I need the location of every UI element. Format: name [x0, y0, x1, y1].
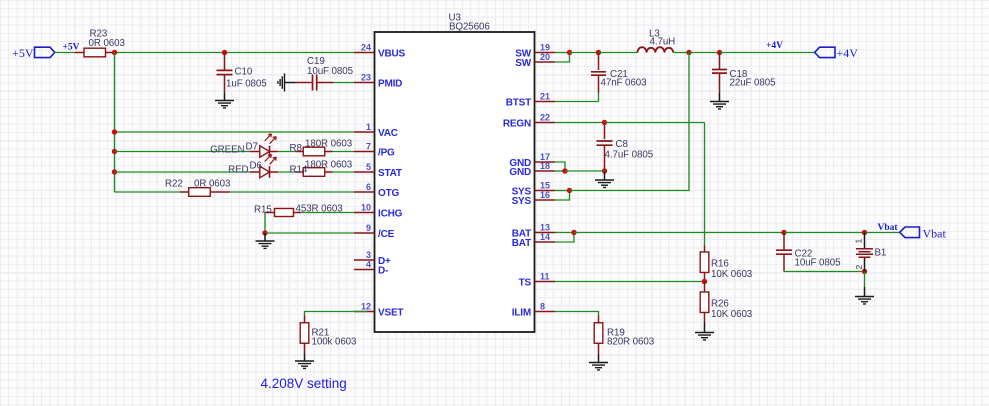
label R8 refdes [290, 143, 303, 154]
wire C22 return to B1 bottom [784, 271, 865, 273]
resistor R23 [84, 48, 106, 57]
label U3 refdes [449, 13, 462, 24]
resistor R15 [275, 209, 294, 217]
svg-text:0R 0603: 0R 0603 [89, 38, 126, 49]
wire B1 to Vbat port [865, 232, 901, 234]
svg-text:BAT: BAT [512, 238, 531, 249]
wire pin 15 to SYS node [555, 190, 570, 192]
wire L3 to +4V node [673, 52, 689, 54]
node BAT junction at B1 [862, 230, 867, 235]
svg-text:100k 0603: 100k 0603 [312, 337, 358, 348]
lead R14 left [296, 171, 304, 173]
svg-text:24: 24 [361, 43, 371, 53]
wire C21 to L3 [599, 52, 638, 54]
pin 2 of B1 [854, 265, 864, 270]
label D6 RED [228, 165, 248, 176]
svg-text:22: 22 [540, 113, 550, 123]
svg-text:16: 16 [540, 190, 550, 200]
capacitor C10 [217, 70, 233, 74]
inductor L3 [638, 47, 674, 52]
IC U3 BQ25606 body [375, 32, 535, 332]
lead R23 left [75, 52, 84, 54]
wire R15 to pin 10 [301, 212, 354, 214]
lead R21 top [304, 316, 306, 324]
node +4V junction at C18 [717, 50, 722, 55]
node GND junction at C8 [602, 168, 607, 173]
wire REGN down to R16 [704, 123, 706, 246]
svg-text:SYS: SYS [512, 196, 532, 207]
svg-text:3: 3 [366, 250, 371, 260]
svg-text:10uF 0805: 10uF 0805 [795, 258, 842, 269]
pin 15 SYS of U3 [512, 181, 555, 198]
svg-text:15: 15 [540, 181, 550, 191]
ground at C10 [215, 101, 234, 108]
svg-text:RED: RED [228, 165, 248, 176]
lead C10 bottom [224, 75, 226, 93]
svg-text:R8: R8 [290, 143, 303, 154]
wire R8 to pin 7 [333, 151, 355, 153]
svg-text:GND: GND [509, 167, 531, 178]
wire SYS node to +4V vertical [570, 53, 690, 191]
label C21 value 47nF 0603 [601, 78, 648, 89]
lead R19 gnd [598, 355, 600, 363]
capacitor C22 [776, 250, 792, 254]
svg-text:180R 0603: 180R 0603 [305, 160, 353, 171]
pin 21 BTST of U3 [506, 92, 555, 109]
svg-text:D-: D- [378, 265, 388, 276]
svg-text:D6: D6 [250, 161, 263, 172]
wire C8 to R16 column [605, 122, 705, 124]
node GND18 junction [562, 168, 567, 173]
pin 1 of B1 [854, 239, 864, 244]
ground at R19 [589, 363, 608, 370]
svg-text:VSET: VSET [378, 307, 403, 318]
lead R19 bottom [598, 343, 600, 355]
lead R15 right [294, 212, 302, 214]
lead R8 right [325, 151, 333, 153]
label L3 value 4.7uH [650, 37, 676, 48]
svg-text:Vbat: Vbat [878, 223, 899, 233]
node VBUS junction at C10 [222, 50, 227, 55]
svg-text:1: 1 [366, 122, 371, 132]
net label +5V on wire [63, 43, 80, 53]
label C22 value 10uF 0805 [795, 258, 842, 269]
label R8 value 180R 0603 [305, 139, 353, 150]
svg-text:GREEN: GREEN [210, 145, 244, 156]
svg-text:R15: R15 [254, 205, 272, 216]
lead R15 left [265, 212, 275, 214]
svg-text:+5V: +5V [63, 43, 80, 53]
ground at CE [256, 241, 275, 248]
svg-text:OTG: OTG [378, 188, 399, 199]
LED D6 (red) [260, 154, 276, 178]
wire bus to D6 anode [115, 171, 251, 173]
svg-text:6: 6 [366, 182, 371, 192]
svg-text:D7: D7 [246, 142, 258, 153]
label R22 refdes [165, 179, 183, 190]
svg-text:2: 2 [854, 265, 864, 270]
lead B1 gnd [864, 287, 866, 297]
wire pin 8 to R19 [555, 312, 599, 316]
svg-text:+5V: +5V [12, 46, 34, 60]
label B1 refdes [875, 248, 887, 259]
wire R15 down to CE node [264, 213, 266, 234]
svg-text:1: 1 [854, 239, 864, 244]
lead R21 gnd [304, 354, 306, 362]
wire bus to D7 anode [115, 151, 251, 153]
wire CE node to pin 9 [265, 232, 354, 234]
svg-text:B1: B1 [875, 248, 887, 259]
ground at C18 [710, 102, 729, 109]
svg-text:20: 20 [540, 52, 550, 62]
pin 18 GND of U3 [509, 161, 555, 178]
svg-text:14: 14 [540, 232, 550, 242]
resistor R22 [189, 188, 211, 197]
svg-text:18: 18 [540, 161, 550, 171]
svg-text:SW: SW [515, 58, 531, 69]
svg-text:STAT: STAT [378, 168, 402, 179]
label C18 refdes [730, 69, 748, 80]
label R16 refdes [711, 259, 729, 270]
ground at R21 [295, 361, 314, 368]
svg-text:11: 11 [540, 272, 550, 282]
lead C19 gnd side [285, 82, 296, 84]
svg-text:13: 13 [540, 223, 550, 233]
svg-text:4.7uH: 4.7uH [650, 37, 676, 48]
label R15 refdes [254, 205, 272, 216]
node BAT junction [571, 230, 576, 235]
lead R26 bottom [704, 313, 706, 323]
lead D6 anode [250, 171, 260, 173]
svg-text:820R 0603: 820R 0603 [607, 337, 655, 348]
lead C18 top [719, 53, 721, 70]
label R22 value 0R 0603 [194, 179, 231, 190]
svg-text:R16: R16 [711, 259, 729, 270]
lead C19 left [295, 82, 312, 84]
pin 20 SW of U3 [515, 52, 555, 69]
svg-text:22uF 0805: 22uF 0805 [730, 78, 777, 89]
svg-text:VAC: VAC [378, 128, 398, 139]
label C10 value 1uF 0805 [226, 79, 267, 90]
label R19 value 820R 0603 [607, 337, 655, 348]
label C8 refdes [616, 139, 629, 150]
lead R22 left [180, 191, 189, 193]
pin 6 OTG of U3 [354, 182, 399, 199]
port +4V [815, 47, 835, 57]
lead R26 gnd [704, 323, 706, 333]
lead C19 right [317, 82, 334, 84]
wire C10 to pin 24 [225, 52, 355, 54]
label D6 refdes [250, 161, 263, 172]
svg-text:REGN: REGN [503, 118, 531, 129]
net label +4V on wire [766, 41, 783, 51]
wire C18 to +4V port [720, 52, 815, 54]
svg-text:4.7uF 0805: 4.7uF 0805 [605, 150, 654, 161]
label R26 value 10K 0603 [711, 309, 753, 320]
node +4V junction at L3 [686, 50, 691, 55]
node SW junction 1 [567, 50, 572, 55]
svg-text:ILIM: ILIM [512, 307, 531, 318]
wire pin 22 to C8 [555, 122, 605, 124]
wire bus corner to R22 [115, 191, 181, 193]
svg-text:Vbat: Vbat [923, 227, 947, 241]
label C19 refdes [307, 56, 325, 67]
pin 4 D- of U3 [354, 260, 388, 277]
lead C8 top [604, 123, 606, 140]
wire C22 to B1 [784, 232, 865, 234]
ground at B1 [855, 297, 874, 304]
node REGN junction at C8 [602, 120, 607, 125]
lead R22 right [210, 191, 230, 193]
pin 14 BAT of U3 [512, 232, 555, 249]
lead C10 top [224, 53, 226, 71]
ground at R26 [695, 333, 714, 340]
label R23 refdes [90, 29, 108, 40]
wire pin 14 up to BAT node [555, 233, 574, 243]
svg-text:47nF 0603: 47nF 0603 [601, 78, 648, 89]
label C19 value 10uF 0805 [307, 66, 354, 77]
pin 7 /PG of U3 [354, 142, 395, 159]
wire pin 17 to gnd node [555, 162, 565, 171]
wire +4V node to C18 [689, 52, 720, 54]
lead R16 bottom [704, 273, 706, 282]
svg-text:VBUS: VBUS [378, 48, 406, 59]
lead C22 top [783, 233, 785, 250]
capacitor C18 [712, 70, 727, 74]
lead D7 cathode [270, 151, 279, 153]
svg-text:TS: TS [519, 277, 532, 288]
wire R22 to pin 6 [230, 191, 354, 193]
label +5V port text [12, 46, 34, 60]
lead D7 anode [250, 151, 260, 153]
pin 3 D+ of U3 [354, 250, 391, 267]
pin 13 BAT of U3 [512, 223, 555, 240]
svg-text:8: 8 [540, 302, 545, 312]
svg-text:7: 7 [366, 142, 371, 152]
svg-text:23: 23 [361, 73, 371, 83]
lead R14 right [325, 171, 333, 173]
pin 22 REGN of U3 [503, 113, 555, 130]
wire +5V vertical bus [114, 53, 116, 193]
svg-text:ICHG: ICHG [378, 208, 403, 219]
lead C8 gnd [604, 171, 606, 180]
label D7 GREEN [210, 145, 244, 156]
pin 8 ILIM of U3 [512, 302, 555, 319]
node SW junction at C21 [596, 50, 601, 55]
label D7 refdes [246, 142, 258, 153]
wire VBUS node to C10 [115, 52, 225, 54]
capacitor C8 [597, 141, 613, 145]
node B1 bottom junction [862, 269, 867, 274]
pin 24 VBUS of U3 [354, 43, 406, 60]
lead B1 bottom [864, 258, 866, 272]
wire C19 to pin 23 [334, 82, 355, 84]
wire +5V port to R23 [55, 52, 75, 54]
label U3 value BQ25606 [449, 22, 490, 33]
pin 19 SW of U3 [515, 43, 555, 60]
label +4V port text [837, 46, 859, 60]
wire pin 19 to SW node [555, 52, 570, 54]
lead C8 bottom [604, 145, 606, 171]
node PG junction [112, 149, 117, 154]
note 4.208V setting [261, 376, 347, 391]
svg-text:C10: C10 [235, 67, 253, 78]
capacitor C21 [591, 72, 606, 75]
label C18 value 22uF 0805 [730, 78, 777, 89]
svg-text:1uF 0805: 1uF 0805 [226, 79, 267, 90]
lead C18 bottom [719, 73, 721, 93]
svg-text:12: 12 [361, 302, 371, 312]
label C21 refdes [610, 69, 628, 80]
lead C22 bottom [783, 254, 785, 271]
resistor R19 [594, 323, 603, 344]
label C22 refdes [795, 249, 813, 260]
wire R14 to pin 5 [333, 171, 355, 173]
wire BTST pin 21 [555, 101, 599, 103]
wire D7 to R8 [278, 151, 296, 153]
label R14 refdes [290, 165, 308, 176]
lead C21 bottom [598, 75, 600, 92]
ground at C19 (rotated) [278, 74, 285, 92]
label R21 refdes [312, 328, 330, 339]
lead R8 left [296, 151, 304, 153]
lead C18 gnd [719, 93, 721, 102]
node SYS junction [567, 188, 572, 193]
pin 5 STAT of U3 [354, 162, 402, 179]
wire VAC row [115, 131, 355, 133]
lead R21 bottom [304, 343, 306, 354]
node VBUS junction at R23 [112, 50, 117, 55]
svg-text:4.208V setting: 4.208V setting [261, 376, 347, 391]
resistor R21 [300, 323, 309, 344]
lead R23 right [106, 52, 115, 54]
svg-text:4: 4 [366, 260, 371, 270]
svg-text:+4V: +4V [766, 41, 783, 51]
pin 12 VSET of U3 [354, 302, 403, 319]
label R16 value 10K 0603 [711, 269, 753, 280]
label R26 refdes [711, 299, 729, 310]
wire pin 12 to R21 [305, 312, 368, 316]
wire B1 bottom to gnd lead [864, 272, 866, 288]
battery B1 [856, 249, 873, 258]
wire pin 18 to gnd node [555, 170, 565, 172]
svg-text:9: 9 [366, 223, 371, 233]
resistor R16 [700, 252, 709, 273]
svg-text:10K 0603: 10K 0603 [711, 269, 753, 280]
node CE junction [262, 230, 267, 235]
svg-text:+4V: +4V [837, 46, 859, 60]
svg-text:10K 0603: 10K 0603 [711, 309, 753, 320]
lead R26 top [704, 282, 706, 293]
label R15 value 453R 0603 [296, 204, 344, 215]
label R19 refdes [607, 328, 625, 339]
wire SW node to C21 [570, 52, 599, 54]
pin 11 TS of U3 [519, 272, 555, 289]
resistor R26 [700, 292, 709, 313]
lead C10 gnd [224, 93, 226, 101]
svg-text:/PG: /PG [378, 147, 395, 158]
pin 10 ICHG of U3 [354, 203, 403, 220]
wire pin 20 up to SW node [555, 53, 570, 63]
svg-text:21: 21 [540, 92, 550, 102]
svg-text:/CE: /CE [378, 229, 395, 240]
pin 17 GND of U3 [509, 152, 555, 169]
wire pin 16 up to SYS node [555, 191, 570, 201]
label R21 value 100k 0603 [312, 337, 358, 348]
lead R19 top [598, 316, 600, 324]
capacitor C19 [313, 75, 317, 91]
lead D6 cathode [270, 171, 279, 173]
lead CE gnd [264, 233, 266, 241]
node VAC junction [112, 129, 117, 134]
label R23 value 0R 0603 [89, 38, 126, 49]
label L3 refdes [649, 29, 660, 40]
svg-text:19: 19 [540, 43, 550, 53]
LED D7 (green) [260, 134, 276, 158]
svg-text:10: 10 [361, 203, 371, 213]
lead C21 top [598, 53, 600, 71]
svg-text:R26: R26 [711, 299, 729, 310]
svg-text:PMID: PMID [378, 78, 402, 89]
svg-text:5: 5 [366, 162, 371, 172]
pin 9 /CE of U3 [354, 223, 395, 240]
lead B1 top [864, 233, 866, 249]
wire pin 11 to TS node [555, 281, 705, 283]
node BAT junction at C22 [781, 230, 786, 235]
wire BAT node to C22 [574, 232, 784, 234]
wire C21 to BTST row [598, 93, 600, 102]
pin 1 VAC of U3 [354, 122, 398, 139]
lead R16 top [704, 246, 706, 253]
svg-text:180R 0603: 180R 0603 [305, 139, 353, 150]
wire D6 to R14 [278, 171, 296, 173]
pin 23 PMID of U3 [354, 73, 402, 90]
label R14 value 180R 0603 [305, 160, 353, 171]
node TS junction [702, 279, 707, 284]
port +5V [35, 47, 55, 57]
resistor R14 [303, 168, 325, 177]
svg-text:BTST: BTST [506, 97, 531, 108]
resistor R8 [303, 147, 325, 156]
pin 16 SYS of U3 [512, 190, 555, 207]
node STAT junction [112, 169, 117, 174]
label C10 refdes [235, 67, 253, 78]
port Vbat [900, 227, 920, 238]
svg-text:R22: R22 [165, 179, 183, 190]
net label Vbat on wire [878, 223, 899, 233]
ground at C8 [595, 180, 614, 187]
label C8 value 4.7uF 0805 [605, 150, 654, 161]
label Vbat port text [923, 227, 947, 241]
wire pin 13 to BAT node [555, 232, 574, 234]
svg-text:BQ25606: BQ25606 [449, 22, 490, 33]
svg-text:C8: C8 [616, 139, 629, 150]
svg-text:10uF 0805: 10uF 0805 [307, 66, 354, 77]
wire gnd node to C8 gnd [565, 170, 605, 172]
svg-text:0R 0603: 0R 0603 [194, 179, 231, 190]
